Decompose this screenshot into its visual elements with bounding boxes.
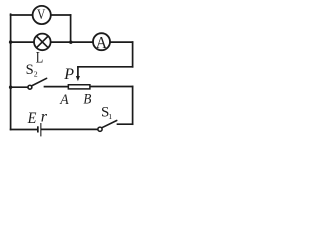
svg-text:P: P <box>63 66 74 83</box>
wire right rail lower <box>132 87 134 125</box>
node junction left-S2 <box>9 86 12 89</box>
wire S2 left <box>11 86 28 88</box>
lamp L <box>34 34 51 51</box>
svg-text:S: S <box>26 62 34 78</box>
wire left rail <box>10 14 12 129</box>
wire right rail upper <box>132 42 134 67</box>
wire wiper feed <box>78 66 133 68</box>
wiper arrowhead P <box>76 76 80 81</box>
svg-text:A: A <box>59 92 69 108</box>
wire wiper stem <box>77 67 79 77</box>
battery E r positive plate <box>40 123 41 136</box>
svg-text:r: r <box>41 109 48 126</box>
wire top-right vertical <box>70 15 72 42</box>
switch S1 <box>98 121 117 132</box>
svg-text:B: B <box>83 91 91 107</box>
battery E r negative plate <box>37 126 39 132</box>
svg-text:A: A <box>96 33 108 52</box>
wire bottom right <box>41 128 97 130</box>
svg-text:V: V <box>37 7 45 23</box>
switch S2 <box>28 78 47 89</box>
voltmeter U1 <box>33 6 51 24</box>
rheostat R box <box>68 85 90 89</box>
wire box left <box>45 86 68 88</box>
wire S1 contact <box>118 123 133 125</box>
ammeter A <box>93 33 110 52</box>
svg-text:E: E <box>27 110 37 127</box>
wire bottom left <box>11 129 37 131</box>
svg-text:1: 1 <box>108 112 112 121</box>
node junction left-lamp <box>9 40 12 43</box>
svg-text:2: 2 <box>34 70 38 79</box>
node junction top-right <box>69 41 72 44</box>
svg-text:L: L <box>36 50 44 67</box>
wire box right <box>91 86 133 88</box>
wire lamp-ammeter row <box>11 41 133 43</box>
wire top horizontal <box>11 14 71 16</box>
